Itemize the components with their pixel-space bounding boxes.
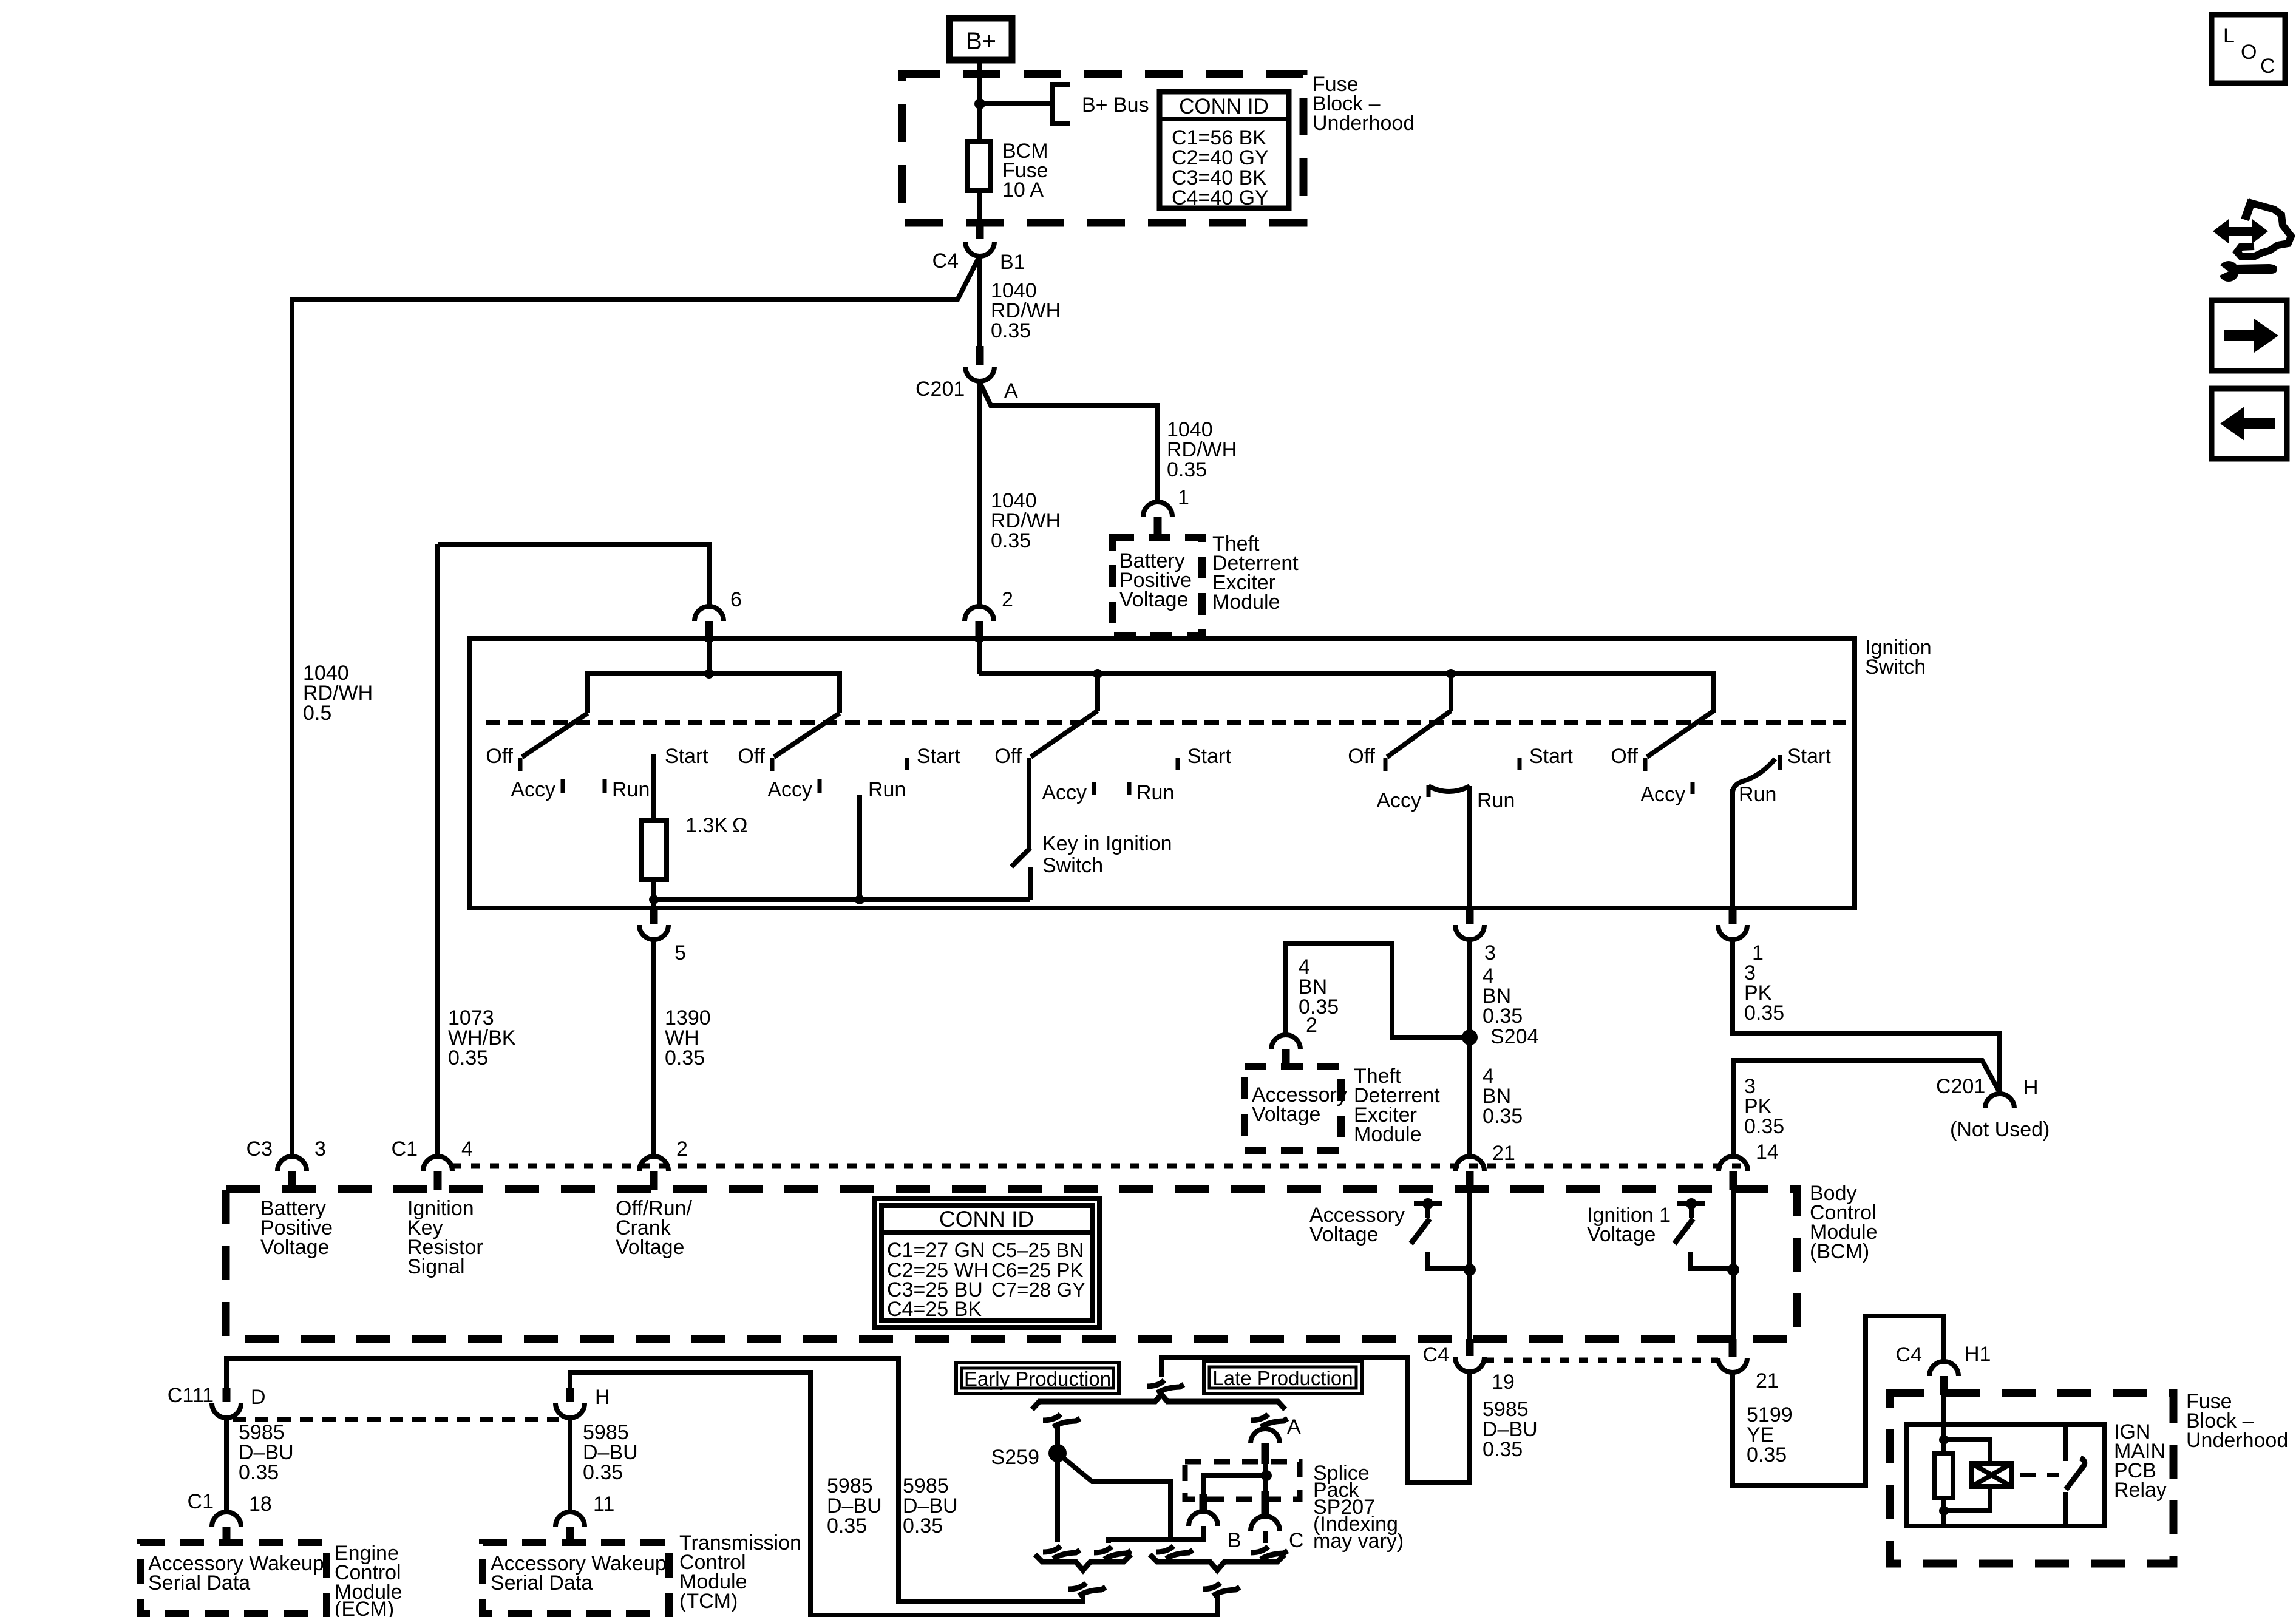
connector C4 pin B1 <box>965 223 994 256</box>
wire to B+ Bus <box>980 101 1052 106</box>
wire H to TCM <box>568 1418 572 1512</box>
svg-text:H: H <box>2023 1076 2039 1099</box>
svg-text:H1: H1 <box>1965 1343 1991 1366</box>
connector break late column <box>1251 1414 1288 1427</box>
wire pin2 stem inside <box>977 642 982 674</box>
svg-text:18: 18 <box>249 1493 272 1516</box>
label Accessory Voltage BCM <box>1309 1204 1405 1246</box>
switch Accessory Voltage BCM <box>1411 1198 1470 1269</box>
wire wafer4 drop <box>1449 674 1453 711</box>
contact Run w1 <box>603 779 607 793</box>
body control module dashed box <box>226 1189 1797 1339</box>
switch key-in-ignition <box>1011 771 1030 900</box>
svg-text:Voltage: Voltage <box>260 1236 329 1259</box>
wire key contact bus <box>654 897 1030 902</box>
wire branch to left run <box>292 256 980 1156</box>
svg-text:Run: Run <box>868 778 906 801</box>
svg-text:11: 11 <box>593 1493 614 1516</box>
connector BCM pin 14 <box>1719 1156 1748 1190</box>
svg-text:Module: Module <box>1212 591 1280 614</box>
svg-text:A: A <box>1287 1415 1301 1439</box>
wiper Accy-Run arc w4 <box>1428 786 1470 792</box>
svg-text:A: A <box>1004 379 1018 402</box>
wire resistor to bus <box>651 880 656 908</box>
connector splice pack pin B <box>1189 1494 1218 1526</box>
svg-text:(ECM): (ECM) <box>335 1598 394 1617</box>
svg-text:B+ Bus: B+ Bus <box>1082 93 1149 117</box>
label Engine Control Module (ECM) <box>335 1542 402 1617</box>
svg-text:H: H <box>595 1386 610 1409</box>
connector C111 pin D <box>212 1388 241 1418</box>
svg-text:Serial Data: Serial Data <box>491 1571 593 1595</box>
svg-text:C4: C4 <box>1896 1343 1922 1366</box>
wire junction to B <box>1203 1476 1266 1494</box>
label Transmission Control Module (TCM) <box>679 1531 801 1613</box>
wire pin6 stem outside <box>438 544 709 606</box>
wire wafer3 drop <box>1095 674 1100 711</box>
label Theft Deterrent Exciter Module 2 <box>1354 1065 1440 1146</box>
connector break C column <box>1251 1547 1288 1559</box>
svg-text:1: 1 <box>1178 486 1189 509</box>
svg-text:Off: Off <box>1348 745 1375 768</box>
wire pin3 to BCM pin21 <box>1467 940 1472 1156</box>
fuse F1 BCM Fuse 10A <box>967 141 990 191</box>
harness bracket lower right <box>1150 1554 1285 1570</box>
ignition switch box <box>469 639 1855 908</box>
connector BCM pin C4/19 <box>1455 1339 1484 1372</box>
wire pin5 to BCM <box>651 940 656 1156</box>
theft deterrent exciter module box 1 <box>1112 537 1202 636</box>
connector BCM pin 2 <box>639 1156 668 1190</box>
connector C201 pin H <box>1985 1094 2014 1108</box>
connector ignition pin 5 <box>639 908 668 940</box>
wire branch to theft module pin1 <box>980 382 1158 502</box>
connector break S259 branch column <box>1156 1546 1193 1559</box>
wire C201 down to pin2 <box>977 381 982 606</box>
svg-text:CONN ID: CONN ID <box>939 1207 1034 1232</box>
label 5199 YE 0.35 <box>1747 1403 1793 1466</box>
connector fuse block pin H1 <box>1929 1361 1958 1395</box>
connector accessory voltage pin 2 <box>1271 1035 1300 1068</box>
svg-text:0.35: 0.35 <box>1167 458 1207 481</box>
label Key in Ignition Switch <box>1042 832 1172 877</box>
label 5985 D-BU 0.35 ECM <box>239 1421 294 1484</box>
switch relay contacts <box>2066 1425 2085 1526</box>
svg-text:Voltage: Voltage <box>1309 1223 1378 1246</box>
wire Run w2 <box>857 795 862 900</box>
label 1.3K ohm <box>685 814 747 837</box>
switch wafer 2 arm <box>774 713 840 757</box>
node relay top <box>1939 1435 1949 1445</box>
node B+ bus junction <box>974 98 985 109</box>
label 1040 RD/WH 0.35 branch <box>1167 418 1237 481</box>
icon arrow next box <box>2212 300 2287 371</box>
svg-text:Accy: Accy <box>1042 781 1087 804</box>
wire coil bottom <box>1944 1486 1990 1511</box>
splice S259 <box>1048 1444 1067 1462</box>
BCM interface dotted line lower <box>1485 1358 1718 1363</box>
contact Accy w2 <box>818 779 822 793</box>
svg-text:Key in Ignition: Key in Ignition <box>1042 832 1172 855</box>
connector break early column <box>1043 1414 1080 1427</box>
contact Off w1 <box>518 758 523 771</box>
BCM connector interface dotted line <box>452 1164 1748 1169</box>
connector H <box>555 1388 585 1418</box>
connector splice pack pin A <box>1251 1429 1280 1464</box>
CONN ID table BCM <box>874 1198 1099 1327</box>
connector break B column <box>1094 1547 1131 1559</box>
label C201 H <box>1936 1075 2039 1099</box>
contact Accy w1 <box>561 779 565 793</box>
svg-text:C1: C1 <box>392 1137 418 1161</box>
wire C4/B1 down <box>977 256 982 346</box>
svg-text:Start: Start <box>665 745 708 768</box>
svg-text:4: 4 <box>461 1137 473 1161</box>
svg-text:Serial Data: Serial Data <box>148 1571 250 1595</box>
ignition internal dashed wiper line <box>486 720 1846 725</box>
connector ignition pin 2 <box>965 606 994 642</box>
label 5985 D-BU 0.35 TCM <box>583 1421 638 1484</box>
svg-text:19: 19 <box>1492 1371 1515 1394</box>
label C1 4 <box>392 1137 473 1161</box>
label Accessory Wakeup Serial Data ECM <box>148 1552 324 1595</box>
node accessory switch junction <box>1464 1264 1476 1276</box>
node wafer4 junction <box>1446 669 1456 679</box>
svg-text:C5–25 BN: C5–25 BN <box>991 1239 1084 1261</box>
label 1040 RD/WH 0.35 <box>991 279 1061 342</box>
label Theft Deterrent Exciter Module <box>1212 532 1299 614</box>
Early Production label box <box>956 1363 1119 1394</box>
svg-text:Signal: Signal <box>407 1255 465 1278</box>
connector ignition pin 3 <box>1455 908 1484 940</box>
wire Run w5 to pin1 <box>1730 789 1735 908</box>
svg-text:0.35: 0.35 <box>1483 1105 1523 1128</box>
wire B+ to fuse <box>977 63 982 144</box>
svg-text:Module: Module <box>1354 1123 1422 1146</box>
connector TCM pin 11 <box>555 1512 585 1545</box>
svg-text:Start: Start <box>1529 745 1573 768</box>
label Ignition Switch <box>1865 636 1932 679</box>
harness bracket top <box>1032 1394 1285 1409</box>
svg-text:C4=40 GY: C4=40 GY <box>1172 186 1269 209</box>
label 5985 D-BU 0.35 pin19 <box>1483 1398 1538 1461</box>
svg-text:Switch: Switch <box>1042 854 1103 877</box>
svg-text:14: 14 <box>1756 1141 1779 1164</box>
svg-text:C: C <box>2260 55 2275 78</box>
svg-text:Start: Start <box>917 745 960 768</box>
label Battery Positive Voltage <box>1119 549 1192 611</box>
label 4 BN 0.35 upper <box>1483 964 1523 1028</box>
connector BCM pin 4 <box>423 1156 452 1190</box>
svg-text:Off: Off <box>486 745 513 768</box>
connector theft module pin 1 <box>1143 502 1172 538</box>
label IGN MAIN PCB Relay <box>2114 1420 2167 1502</box>
label Ignition Key Resistor Signal <box>407 1197 483 1278</box>
svg-text:D: D <box>251 1386 266 1409</box>
svg-text:Off: Off <box>994 745 1022 768</box>
svg-text:Run: Run <box>1477 789 1515 812</box>
svg-text:0.35: 0.35 <box>991 319 1031 342</box>
wire BCM pin14 internal <box>1731 1190 1736 1341</box>
svg-text:C1: C1 <box>188 1490 214 1513</box>
svg-text:C201: C201 <box>915 378 965 401</box>
svg-text:Run: Run <box>612 778 650 801</box>
svg-text:21: 21 <box>1492 1142 1515 1165</box>
label Ignition 1 Voltage <box>1587 1204 1671 1246</box>
svg-text:Accy: Accy <box>511 778 555 801</box>
svg-text:Run: Run <box>1739 783 1776 806</box>
accessory voltage dashed box <box>1245 1066 1341 1150</box>
label Accessory Wakeup Serial Data TCM <box>491 1552 667 1595</box>
label Off/Run/ Crank Voltage <box>616 1197 693 1259</box>
wire wafer bus left <box>588 674 840 713</box>
svg-text:0.35: 0.35 <box>1747 1443 1787 1466</box>
connector ignition pin 6 <box>695 606 724 642</box>
svg-text:Late Production: Late Production <box>1212 1367 1353 1389</box>
fuse block underhood dashed box <box>902 74 1303 223</box>
node relay bottom <box>1939 1506 1949 1516</box>
wiper Run-Start curve w5 <box>1733 755 1780 792</box>
node pin6 junction <box>704 669 714 679</box>
connector splice pack pin C <box>1251 1491 1280 1531</box>
wire fuse to C4 <box>977 191 982 223</box>
connector BCM pin 21 bottom <box>1718 1339 1747 1372</box>
node splice junction <box>1261 1470 1272 1481</box>
svg-text:L: L <box>2223 24 2235 47</box>
CONN ID table fuse block <box>1160 92 1289 209</box>
label 5985 D-BU 0.35 left <box>827 1474 882 1537</box>
label C4 H1 <box>1896 1343 1991 1366</box>
wire pin6 inside <box>707 642 712 674</box>
svg-text:S204: S204 <box>1490 1025 1538 1048</box>
svg-text:C111: C111 <box>168 1384 214 1407</box>
wire TCM serial data run <box>570 1372 1217 1615</box>
label 4 BN 0.35 branch <box>1299 955 1339 1019</box>
label Fuse Block - Underhood <box>1313 73 1415 135</box>
label Accessory Voltage box <box>1252 1083 1347 1126</box>
wire BCM pin14 to C201 H <box>1733 1060 2000 1156</box>
svg-text:Accy: Accy <box>767 778 812 801</box>
svg-text:C4: C4 <box>1423 1343 1449 1366</box>
svg-text:may vary): may vary) <box>1313 1530 1404 1553</box>
label 3 PK 0.35 pin14 <box>1744 1075 1784 1138</box>
svg-text:Voltage: Voltage <box>616 1236 684 1259</box>
svg-text:(BCM): (BCM) <box>1810 1240 1869 1263</box>
svg-text:Accy: Accy <box>1376 789 1421 812</box>
B+ battery feed box <box>949 18 1012 60</box>
svg-text:Voltage: Voltage <box>1587 1223 1656 1246</box>
svg-text:0.35: 0.35 <box>1299 995 1339 1019</box>
svg-text:5: 5 <box>674 941 686 964</box>
svg-text:S259: S259 <box>991 1446 1039 1469</box>
label 3 PK 0.35 pin1 <box>1744 961 1784 1025</box>
connector BCM pin 3 <box>277 1156 307 1190</box>
node wafer3 junction <box>1093 669 1102 679</box>
wire ECM serial data run <box>226 1358 1083 1602</box>
contact Off w4 <box>1384 758 1388 771</box>
transmission control module dashed box <box>483 1542 669 1613</box>
svg-text:3: 3 <box>314 1137 326 1161</box>
svg-text:0.35: 0.35 <box>827 1514 867 1537</box>
svg-text:C4=25 BK: C4=25 BK <box>887 1298 982 1321</box>
svg-text:Accy: Accy <box>1640 783 1685 806</box>
svg-text:0.35: 0.35 <box>1744 1115 1784 1138</box>
wire start stem w1 <box>651 754 656 821</box>
icon arrow back box <box>2212 388 2287 459</box>
wire S259 branch <box>1058 1453 1170 1542</box>
wire D to ECM <box>224 1418 229 1512</box>
label 4 BN 0.35 lower <box>1483 1065 1523 1128</box>
contact Start w4 <box>1518 758 1522 770</box>
relay box IGN MAIN <box>1906 1425 2105 1526</box>
switch wafer 1 arm <box>522 713 588 757</box>
wire 5199 YE to fuse block <box>1733 1316 1944 1486</box>
label 1040 RD/WH 0.35 main <box>991 489 1061 552</box>
svg-text:3: 3 <box>1484 941 1496 964</box>
svg-text:Run: Run <box>1136 781 1174 804</box>
splice pack dashed box <box>1185 1462 1300 1499</box>
svg-text:0.35: 0.35 <box>991 529 1031 552</box>
svg-text:0.35: 0.35 <box>1483 1005 1523 1028</box>
svg-text:(TCM): (TCM) <box>679 1590 738 1613</box>
contact Off w5 <box>1643 758 1648 771</box>
svg-text:Start: Start <box>1787 745 1831 768</box>
switch wafer 4 arm <box>1387 711 1451 757</box>
svg-text:O: O <box>2241 41 2257 64</box>
svg-text:6: 6 <box>730 588 742 611</box>
svg-text:Relay: Relay <box>2114 1479 2167 1502</box>
svg-text:CONN ID: CONN ID <box>1179 95 1269 118</box>
switch Ignition 1 Voltage BCM <box>1674 1198 1733 1269</box>
svg-text:B+: B+ <box>966 28 996 55</box>
connector break ECM bundle <box>1068 1583 1106 1596</box>
svg-text:B1: B1 <box>1000 251 1025 274</box>
svg-text:10 A: 10 A <box>1002 178 1044 202</box>
svg-text:Voltage: Voltage <box>1252 1103 1320 1126</box>
contact Accy w5 <box>1691 782 1695 794</box>
wire relay coil column <box>1941 1395 1946 1526</box>
wire junction to C <box>1263 1476 1268 1491</box>
label 1390 WH 0.35 <box>665 1006 711 1070</box>
relay mechanical link dashed <box>2020 1473 2059 1477</box>
svg-text:Underhood: Underhood <box>1313 112 1415 135</box>
switch wafer 5 arm <box>1647 711 1714 757</box>
label C4 19 <box>1423 1343 1515 1394</box>
fuse block underhood 2 dashed box <box>1890 1393 2173 1564</box>
connector ECM pin 18 <box>212 1512 241 1545</box>
connector BCM pin 21 <box>1455 1156 1484 1190</box>
Late Production label box <box>1204 1361 1362 1394</box>
node run w2 junction <box>855 895 864 904</box>
LOC reference box <box>2212 15 2285 83</box>
label BCM Fuse 10 A <box>1002 140 1048 202</box>
connector break S259 column <box>1043 1546 1080 1559</box>
wire early column <box>1055 1423 1060 1542</box>
label C111 D <box>168 1384 266 1409</box>
resistor R 1.3K <box>641 821 667 880</box>
dashed link D to H <box>233 1417 559 1422</box>
svg-text:Voltage: Voltage <box>1119 588 1188 611</box>
svg-text:0.35: 0.35 <box>1744 1002 1784 1025</box>
wire C down <box>1263 1531 1268 1543</box>
svg-text:2: 2 <box>1002 588 1013 611</box>
wire late column to A <box>1263 1423 1268 1429</box>
connector C201 pin A <box>965 346 994 381</box>
label Splice Pack SP207 <box>1313 1462 1404 1553</box>
contact Accy w3 <box>1092 782 1096 795</box>
svg-text:C3: C3 <box>246 1137 273 1161</box>
svg-text:C4: C4 <box>932 249 959 273</box>
connector ignition pin 1 <box>1718 908 1747 940</box>
wire coil branch <box>1944 1440 1990 1463</box>
label Body Control Module (BCM) <box>1810 1182 1878 1263</box>
contact Off w2 <box>770 758 775 771</box>
svg-text:Off: Off <box>1611 745 1638 768</box>
node resistor junction <box>649 895 659 904</box>
harness bracket lower left <box>1035 1554 1131 1570</box>
label C3 3 <box>246 1137 326 1161</box>
svg-text:21: 21 <box>1756 1369 1779 1392</box>
svg-text:0.35: 0.35 <box>583 1461 623 1484</box>
label Battery Positive Voltage BCM <box>260 1197 333 1259</box>
engine control module dashed box <box>140 1542 327 1613</box>
svg-text:2: 2 <box>676 1137 688 1161</box>
svg-text:C201: C201 <box>1936 1075 1985 1098</box>
label 1073 WH/BK 0.35 <box>448 1006 516 1070</box>
switch wafer 3 arm <box>1031 711 1098 757</box>
wire Run w4 to pin3 <box>1467 786 1472 908</box>
svg-text:0.35: 0.35 <box>1483 1438 1523 1461</box>
svg-text:1.3K: 1.3K <box>685 814 728 837</box>
connector break pin19 bundle <box>1147 1380 1184 1393</box>
contact Start w3 <box>1176 758 1180 770</box>
contact Start w2 <box>905 758 909 770</box>
wire A to junction <box>1263 1464 1268 1476</box>
node ignition1 switch junction <box>1727 1264 1739 1276</box>
resistor relay <box>1934 1454 1953 1498</box>
label C1 18 <box>188 1490 272 1516</box>
wire C1 run down <box>435 544 440 1156</box>
wire pin1 to C201 H <box>1733 940 2000 1094</box>
svg-text:B: B <box>1228 1529 1241 1552</box>
svg-text:0.35: 0.35 <box>903 1514 943 1537</box>
label 1040 RD/WH 0.5 <box>303 662 373 725</box>
svg-text:Underhood: Underhood <box>2186 1429 2288 1452</box>
svg-text:C7=28 GY: C7=28 GY <box>991 1278 1085 1301</box>
wire branch to accessory voltage pin2 <box>1286 943 1470 1037</box>
svg-text:0.35: 0.35 <box>448 1046 488 1070</box>
B+ Bus bracket terminal <box>1052 84 1070 124</box>
svg-text:Early Production: Early Production <box>964 1368 1111 1390</box>
label Fuse Block - Underhood 2 <box>2186 1390 2288 1452</box>
contact Accy w4 <box>1427 785 1431 797</box>
svg-text:Ω: Ω <box>732 814 747 837</box>
connector break TCM bundle <box>1203 1583 1240 1596</box>
svg-text:Switch: Switch <box>1865 656 1926 679</box>
splice S204 <box>1462 1029 1478 1045</box>
svg-text:C: C <box>1289 1529 1304 1552</box>
wire pin19 loop to bracket <box>1161 1357 1470 1482</box>
wire B loop <box>1109 1526 1203 1543</box>
label 5985 D-BU 0.35 right <box>903 1474 958 1537</box>
contact Off w3 <box>1027 758 1031 771</box>
svg-text:Off: Off <box>738 745 765 768</box>
contact Run w3 <box>1127 782 1132 795</box>
svg-text:0.35: 0.35 <box>665 1046 705 1070</box>
svg-text:Start: Start <box>1187 745 1231 768</box>
svg-text:2: 2 <box>1306 1014 1317 1037</box>
svg-text:(Not Used): (Not Used) <box>1950 1118 2050 1141</box>
